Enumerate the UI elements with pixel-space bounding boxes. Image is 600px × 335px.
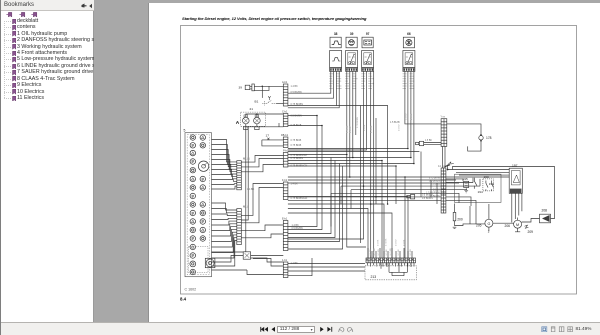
svg-text:1.5 BU/B: 1.5 BU/B (390, 121, 400, 124)
svg-text:0.75 BK/BN: 0.75 BK/BN (357, 117, 359, 128)
svg-text:0.5 BK: 0.5 BK (411, 113, 413, 120)
svg-text:0.75 BK: 0.75 BK (347, 125, 349, 133)
lamp right (254, 115, 261, 124)
lamp left (243, 115, 250, 124)
lamp unit item 21 (236, 107, 265, 126)
diagram frame (181, 26, 577, 295)
page number 8.4 (180, 297, 187, 302)
svg-text:0-1 1g: 0-1 1g (438, 166, 445, 168)
svg-text:1.4 BK: 1.4 BK (291, 85, 299, 88)
svg-text:8.4: 8.4 (180, 297, 187, 302)
svg-text:195: 195 (463, 177, 468, 181)
svg-text:0.5 BU: 0.5 BU (396, 239, 398, 246)
wire elbow to X213 field (336, 106, 387, 205)
glow monitor K39 (345, 32, 357, 88)
svg-text:17: 17 (266, 133, 270, 137)
control unit K97 (361, 32, 373, 88)
generator G205 (476, 204, 493, 234)
svg-text:178: 178 (486, 136, 492, 140)
svg-text:97: 97 (366, 32, 370, 36)
wire harness cluster to M1-I (212, 203, 237, 266)
wires M1 to mid ladders (241, 156, 283, 238)
cluster bottom lamp (190, 261, 196, 267)
svg-text:39: 39 (350, 32, 354, 36)
rotated wire labels top field (347, 113, 413, 246)
svg-text:0.5 BK/BN: 0.5 BK/BN (429, 180, 440, 182)
svg-text:Y-xx: Y-xx (441, 117, 446, 119)
svg-text:F-b1: F-b1 (282, 179, 288, 182)
connector M1-II (237, 157, 250, 190)
svg-text:200: 200 (457, 218, 463, 222)
svg-text:0.75 BK/BN/GN: 0.75 BK/BN/GN (291, 197, 308, 200)
wire 39 to connector A (254, 86, 283, 98)
wire gauge labels mid (247, 85, 308, 265)
svg-text:0.5 BK/BN: 0.5 BK/BN (291, 91, 302, 94)
wire drops K97 (288, 71, 374, 258)
svg-text:M1 | |: M1 | | (243, 157, 250, 161)
time relay K38 (329, 32, 341, 88)
svg-text:G: G (487, 222, 490, 226)
svg-text:193: 193 (484, 175, 489, 179)
svg-text:0.5 BK: 0.5 BK (364, 124, 366, 131)
bus wires mid field (288, 106, 509, 276)
svg-text:21: 21 (250, 107, 254, 111)
svg-text:0.5 BK/BN: 0.5 BK/BN (422, 194, 433, 196)
connector DB-b1 (281, 134, 289, 148)
wire harness cluster to M1-II (212, 140, 237, 190)
plug item 17 (262, 133, 283, 146)
cluster sub-box dashed (189, 247, 209, 273)
cluster hourmeter (205, 258, 215, 267)
connector strip D1 (438, 166, 446, 213)
cluster warning lamp symbols (190, 135, 206, 275)
svg-text:209: 209 (528, 230, 534, 234)
bottom bus to generator (455, 206, 514, 226)
ground point E (445, 162, 454, 170)
svg-text:0.5 BK/BN: 0.5 BK/BN (422, 198, 433, 200)
svg-text:A-b1: A-b1 (282, 81, 288, 84)
svg-text:208: 208 (542, 209, 548, 213)
connector E-b1 (282, 218, 288, 251)
cable lug 209 (525, 225, 534, 234)
cluster item label 5 (184, 128, 186, 132)
plug item 39 (239, 84, 255, 91)
starter M206 (505, 218, 522, 232)
wire drops K66 (405, 71, 441, 163)
regulator N197 (509, 164, 522, 223)
connector M1-I (237, 205, 249, 245)
label 1.5 BU/B (390, 121, 400, 124)
svg-text:C-b1: C-b1 (282, 111, 288, 114)
svg-text:0.75 BK/B: 0.75 BK/B (291, 144, 302, 147)
connector F-b1 (282, 179, 288, 200)
wire drops K39 (347, 71, 366, 247)
thermo switch B1 (255, 96, 284, 105)
svg-text:205: 205 (476, 224, 482, 228)
switch group 193/196 (483, 175, 494, 191)
switch 194 (474, 178, 483, 194)
switch group enclosure (455, 174, 502, 202)
svg-text:1-b1: 1-b1 (282, 259, 288, 262)
svg-text:0.75 BK/W: 0.75 BK/W (429, 177, 441, 179)
svg-text:0.5 BU: 0.5 BU (350, 126, 352, 133)
svg-text:0.5 BK: 0.5 BK (378, 239, 380, 246)
plug pair 177b (407, 194, 433, 200)
wire labels right strip (426, 177, 440, 198)
svg-text:66: 66 (407, 32, 411, 36)
instrument cluster P1 (185, 133, 212, 277)
connector strip V1 (double) (441, 117, 447, 147)
wire drops K38 (288, 71, 339, 107)
cluster speedometer (198, 161, 208, 171)
X213 housing 213 (365, 263, 416, 280)
svg-text:0.75 BK: 0.75 BK (371, 125, 373, 133)
oil pressure switch 195 (463, 177, 469, 193)
svg-text:C 1602: C 1602 (185, 288, 197, 292)
wire loop harness right (446, 167, 555, 219)
footer code C 1602 (185, 288, 197, 292)
svg-text:B1: B1 (255, 99, 259, 103)
central connector X213 (366, 258, 416, 263)
svg-text:213: 213 (371, 275, 377, 279)
svg-text:0.75 BK: 0.75 BK (386, 238, 388, 246)
svg-text:M: M (516, 223, 519, 227)
fuse 178 (447, 124, 492, 151)
wires below cluster (212, 252, 284, 275)
svg-text:39: 39 (239, 85, 243, 89)
svg-text:206: 206 (505, 224, 511, 228)
svg-text:5: 5 (184, 128, 186, 132)
resistor R200 (453, 204, 463, 229)
svg-text:1.5 BK: 1.5 BK (425, 140, 432, 142)
flame start relay K66 (403, 32, 415, 88)
connector A-b1 (282, 81, 288, 106)
X213 pin stubs (368, 248, 412, 258)
svg-text:38: 38 (334, 32, 338, 36)
title text (182, 16, 367, 21)
rotated labels X213 pins (370, 247, 412, 255)
svg-text:0.5 BK/BN: 0.5 BK/BN (291, 115, 302, 118)
plug pair 177 (416, 140, 442, 146)
wire stubs V1 to D1 (443, 146, 446, 168)
connector I-b1 (282, 259, 288, 278)
connector C-b1 (282, 111, 288, 127)
connector P-b1 (283, 150, 289, 168)
battery lead 208 (522, 209, 551, 223)
svg-text:A: A (236, 120, 240, 126)
lamp socket plugs below 21 (244, 127, 260, 130)
svg-text:E-b1: E-b1 (282, 218, 288, 221)
svg-text:DB-b1: DB-b1 (281, 134, 289, 137)
svg-text:1.5 BU: 1.5 BU (405, 113, 407, 120)
svg-text:197: 197 (512, 164, 518, 168)
svg-text:Starting the Diesel engine, 12: Starting the Diesel engine, 12 Volts, Di… (182, 16, 367, 21)
svg-text:0.5 BK/B: 0.5 BK/B (431, 184, 441, 186)
svg-text:0.75 BK/B: 0.75 BK/B (291, 139, 302, 142)
svg-text:0.5 BU: 0.5 BU (433, 190, 440, 192)
wires lamps to connector C (246, 113, 283, 127)
wire lamp return drop (241, 127, 248, 252)
svg-text:0.5 BU: 0.5 BU (399, 124, 401, 131)
X213 lower pin fringe (368, 263, 415, 267)
svg-text:194: 194 (478, 190, 483, 194)
